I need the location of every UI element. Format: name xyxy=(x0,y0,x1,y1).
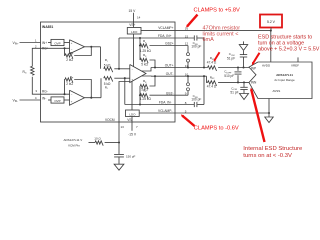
wire VCLAMP+ to AVDD xyxy=(175,30,271,32)
capacitor CDIFF 510pF xyxy=(235,68,242,83)
wire RG+ to A1 inverting input xyxy=(41,47,70,49)
svg-text:5.2 V: 5.2 V xyxy=(267,20,276,24)
svg-text:G: G xyxy=(25,73,27,75)
svg-text:12: 12 xyxy=(185,42,189,46)
pin VS- name xyxy=(127,118,132,122)
svg-text:LDO: LDO xyxy=(129,112,136,116)
RF2 filter value xyxy=(207,85,217,89)
annotation Internal ESD line2 xyxy=(243,153,292,159)
svg-text:OVP: OVP xyxy=(54,99,60,103)
pin RG- name xyxy=(42,89,48,93)
wire LDO1 to VCLAMP+ pin xyxy=(141,30,175,32)
junction Rx1 tap xyxy=(139,44,141,46)
svg-text:GS2-: GS2- xyxy=(166,91,174,95)
op-amp A2 xyxy=(70,90,85,105)
svg-text:OUT+: OUT+ xyxy=(165,64,174,68)
junction FDA -in node xyxy=(124,77,126,79)
junction CFB top on OUT+ xyxy=(203,66,205,68)
capacitor CFB top 100pF xyxy=(175,35,204,40)
wire A1 output xyxy=(85,46,101,48)
resistor RF1 internal 2k xyxy=(65,54,73,59)
ADC ADS127L11 U2 xyxy=(249,62,312,99)
junction AVDD node xyxy=(270,30,272,32)
junction CCM bottom xyxy=(243,81,245,83)
pin VCLAMP+ name xyxy=(158,26,173,30)
RF5k top label xyxy=(143,53,147,58)
Rx1 value xyxy=(140,49,152,53)
svg-text:ADS127L11 V: ADS127L11 V xyxy=(64,138,83,142)
CCM top label xyxy=(229,52,235,57)
pin IN- name xyxy=(42,96,46,100)
wire RG- to A2 inverting input xyxy=(41,93,70,95)
RF5k top value xyxy=(141,62,148,66)
node ADS127L11 VCM pin text xyxy=(64,138,83,148)
svg-text:2: 2 xyxy=(35,44,37,48)
Rx2 label xyxy=(143,88,147,93)
pin GS2- name xyxy=(166,91,174,95)
wire VIN+ to pin 1 xyxy=(20,42,41,44)
wire RG to RG- xyxy=(32,77,40,94)
resistor Rx2 1.25k xyxy=(140,94,148,99)
arrow to RF1 resistor xyxy=(214,52,220,62)
wire VS- stub xyxy=(131,122,133,131)
svg-text:1.25 kΩ: 1.25 kΩ xyxy=(140,97,152,101)
svg-text:4: 4 xyxy=(35,96,37,100)
svg-text:IN+: IN+ xyxy=(42,41,47,45)
pin 4 number xyxy=(35,96,37,100)
svg-text:VCLAMP+: VCLAMP+ xyxy=(158,26,173,30)
wire OUT+ row xyxy=(151,67,208,69)
junction AVSS node xyxy=(268,112,270,114)
svg-text:above + 5.2+0.3 V = 5.5V: above + 5.2+0.3 V = 5.5V xyxy=(258,46,320,52)
junction CDIFF bottom xyxy=(237,81,239,83)
wire FDA_IN+ row xyxy=(119,37,175,39)
junction CCM top xyxy=(242,66,244,68)
junction A1 feedback node xyxy=(63,47,65,49)
wire GS2+ jumper top xyxy=(187,46,189,53)
pin FDA_IN+ name xyxy=(158,34,172,38)
open circle GS2- b xyxy=(187,83,190,86)
Rx1 label xyxy=(143,39,147,44)
ADC pin AVDD name xyxy=(262,63,271,67)
svg-text:VCLAMP-: VCLAMP- xyxy=(158,109,172,113)
CCM bottom label xyxy=(231,86,237,91)
Rx2 value xyxy=(140,97,152,101)
resistor Rx1 1.25k xyxy=(140,44,148,49)
svg-text:VS-: VS- xyxy=(127,118,132,122)
resistor RF2 internal 2k xyxy=(65,78,73,83)
OVP block input - (bottom) xyxy=(51,97,64,103)
svg-text:5 kΩ: 5 kΩ xyxy=(104,63,111,67)
ADC pin INP name xyxy=(251,67,256,71)
wire A1 out to RI1 xyxy=(100,47,102,69)
svg-text:AVDD: AVDD xyxy=(262,63,271,67)
wire LDO1 down to FDA top xyxy=(133,34,135,67)
ADC pin AVSS name xyxy=(273,89,281,93)
pin 1 number xyxy=(35,39,37,43)
RF1 value xyxy=(66,58,73,62)
RF1 label xyxy=(70,51,74,56)
svg-text:51 pF: 51 pF xyxy=(230,90,238,94)
OVP block input + (top) xyxy=(51,39,64,45)
svg-text:2 kΩ: 2 kΩ xyxy=(66,82,73,86)
pin FDA_IN- name xyxy=(159,101,172,105)
junction GS2+ jumper on OUT+ xyxy=(187,66,189,68)
wire OUT- row xyxy=(151,75,207,77)
junction A1 output xyxy=(90,46,92,48)
op-amp A1 xyxy=(70,40,85,54)
wire RI1 to FDA +in xyxy=(114,68,130,70)
ground CCM bottom xyxy=(240,93,249,100)
wire RF5k to OUT- tap xyxy=(150,76,156,86)
svg-text:VS+: VS+ xyxy=(129,23,135,27)
CFB bottom value xyxy=(191,98,201,102)
wire IN- to OVP2 xyxy=(48,99,51,101)
wire stack node top xyxy=(139,38,141,60)
wire AVDD stub xyxy=(270,31,272,62)
svg-text:Internal ESD Structure: Internal ESD Structure xyxy=(243,146,303,152)
arrow to VCLAMP+ xyxy=(186,15,198,28)
RG label xyxy=(23,70,27,75)
svg-text:VOCM: VOCM xyxy=(105,118,115,122)
svg-text:-15 V: -15 V xyxy=(128,133,137,137)
node 15V supply label xyxy=(129,9,137,13)
pin VCLAMP- name xyxy=(158,109,172,113)
RF2 label xyxy=(70,75,74,80)
wire LDO2 up to FDA bottom xyxy=(131,81,133,110)
wire OVP to A1 xyxy=(64,42,70,44)
svg-text:LDO: LDO xyxy=(131,30,138,34)
RF1 filter value xyxy=(207,60,217,64)
RI2 value xyxy=(104,82,111,86)
wire GS2+ jumper bottom xyxy=(187,62,189,67)
capacitor CVCM 150pF xyxy=(114,143,124,162)
arrow to INN xyxy=(250,88,264,142)
wire Rx2 to GS2- pin xyxy=(150,94,189,96)
wire 5.2V to AVDD node xyxy=(270,27,272,30)
wire LDO2 down to VS- pin xyxy=(131,117,133,123)
wire GS2- jumper top xyxy=(187,76,189,83)
svg-text:FDA_IN+: FDA_IN+ xyxy=(158,34,172,38)
junction FDA +in node xyxy=(118,68,120,70)
fully-differential amplifier FDA xyxy=(130,65,146,83)
svg-text:51 pF: 51 pF xyxy=(227,56,235,60)
junction CDIFF top xyxy=(237,66,239,68)
ADC title xyxy=(276,73,293,77)
svg-text:5 kΩ: 5 kΩ xyxy=(141,62,148,66)
junction Rx2 tap xyxy=(139,94,141,96)
wire Rx1 to GS2+ pin xyxy=(150,45,189,47)
wire INP row xyxy=(218,67,249,69)
pin 8 number xyxy=(185,101,187,105)
pin IN+ name xyxy=(42,41,47,45)
wire A2 feedback loop xyxy=(65,80,92,98)
wire RF5k to OUT+ tap xyxy=(150,60,156,68)
resistor RF2 47.4 xyxy=(208,81,217,86)
annotation CLAMPS to +5.8V xyxy=(194,7,241,13)
resistor RI1 5k xyxy=(104,67,113,72)
FDA output - stub xyxy=(141,75,151,77)
pin 7 number xyxy=(136,125,138,129)
junction GS2- jumper on OUT- xyxy=(187,75,189,77)
arrow to INP xyxy=(252,53,260,65)
annotation ESD structure line1 xyxy=(258,34,312,40)
svg-text:1: 1 xyxy=(35,39,37,43)
wire stack node bottom xyxy=(139,86,141,105)
svg-text:13: 13 xyxy=(121,125,125,129)
wire OVP2 to A2 xyxy=(64,99,70,101)
LDO2 block xyxy=(126,110,140,117)
RI1 label xyxy=(105,58,108,63)
junction VCM node xyxy=(118,141,120,143)
RF5k bottom label xyxy=(143,79,147,84)
ground CCM top xyxy=(239,41,248,50)
ADC pin INN name xyxy=(251,80,257,84)
CFB top value xyxy=(191,45,201,49)
svg-text:RG-: RG- xyxy=(42,89,48,93)
wire VOCM to VCM node xyxy=(118,122,120,143)
svg-text:6mA: 6mA xyxy=(203,37,215,43)
wire A2 out to RI2 xyxy=(100,78,102,98)
RF2 value xyxy=(66,82,73,86)
CFB top label xyxy=(193,41,199,46)
ground VCM xyxy=(114,161,124,170)
wire FDA_IN- node vertical xyxy=(124,78,126,104)
pin 12 number xyxy=(185,42,189,46)
CCM top value xyxy=(227,56,235,60)
pin 5 number xyxy=(185,110,187,114)
junction FDA_IN+ stack xyxy=(139,37,141,39)
ground AVSS xyxy=(265,113,274,123)
svg-text:AVSS: AVSS xyxy=(273,89,281,93)
pin VS+ name xyxy=(129,23,135,27)
RF2 filter label xyxy=(210,75,215,80)
wire GS2- jumper bottom xyxy=(187,91,189,95)
RI1 value xyxy=(104,63,111,67)
svg-text:47.4 Ω: 47.4 Ω xyxy=(207,85,217,89)
resistor RF1 47.4 xyxy=(208,66,217,71)
open circle GS2+ b xyxy=(187,59,190,62)
arrow to VCLAMP- xyxy=(181,114,195,126)
wire VCM from text xyxy=(89,142,96,144)
wire VCLAMP- to AVSS xyxy=(175,112,269,114)
wire RI2 to FDA -in xyxy=(114,77,130,79)
node VIN- label xyxy=(13,98,19,103)
RI2 label xyxy=(105,85,108,90)
wire RVCM to node xyxy=(105,142,119,144)
RF5k bottom value xyxy=(141,88,148,92)
svg-text:INN: INN xyxy=(251,80,257,84)
junction CFB bottom on OUT- xyxy=(203,75,205,77)
svg-text:INA851: INA851 xyxy=(42,25,54,29)
CFB bottom label xyxy=(193,94,199,99)
wire OUT- step down xyxy=(207,76,208,82)
svg-text:OUT-: OUT- xyxy=(166,72,174,76)
svg-text:ADS127L11: ADS127L11 xyxy=(276,73,293,77)
CCM bottom value xyxy=(230,90,238,94)
junction A2 output xyxy=(90,97,92,99)
wire 15V to pin 14 xyxy=(133,13,135,22)
annotation Internal ESD line1 xyxy=(243,146,303,152)
wire VIN- to pin 4 xyxy=(20,99,41,101)
capacitor CFB bottom 100pF xyxy=(175,102,204,107)
wire A2 output xyxy=(85,97,102,99)
pin VOCM name xyxy=(105,118,115,122)
resistor RI2 5k xyxy=(104,77,113,82)
resistor RG external xyxy=(31,66,34,75)
svg-text:CLAMPS to +5.8V: CLAMPS to +5.8V xyxy=(194,7,241,13)
wire A1 feedback loop xyxy=(65,47,92,56)
pin 15 number xyxy=(185,34,189,38)
resistor RVCM 10 ohm xyxy=(95,141,103,146)
CDIFF value xyxy=(224,74,234,78)
resistor RF5k bottom xyxy=(140,84,148,89)
svg-text:14: 14 xyxy=(137,15,141,19)
wire VOCM into FDA xyxy=(119,82,130,123)
junction OUT- feedback tap xyxy=(154,75,156,77)
wire CFB top to OUT+ xyxy=(203,38,205,68)
open circle GS2- a xyxy=(187,88,190,91)
svg-text:F2: F2 xyxy=(212,78,215,80)
wire LDO2 to VCLAMP- pin xyxy=(139,112,175,114)
svg-text:10 Ω: 10 Ω xyxy=(94,136,101,140)
wire RG+ out to RG xyxy=(32,48,40,66)
svg-text:CLAMPS to -0.6V: CLAMPS to -0.6V xyxy=(194,126,239,132)
FDA output + stub xyxy=(141,68,151,72)
pin 9 number xyxy=(185,91,187,95)
svg-text:2 kΩ: 2 kΩ xyxy=(66,58,73,62)
svg-text:INP: INP xyxy=(251,67,256,71)
svg-text:510 pF: 510 pF xyxy=(224,74,234,78)
node VIN+ label xyxy=(13,41,20,46)
LDO1 block xyxy=(127,28,141,35)
svg-text:7: 7 xyxy=(136,125,138,129)
wire FDA_IN- row xyxy=(125,104,175,106)
pin 16 number xyxy=(185,26,189,30)
junction A2 feedback node xyxy=(63,93,65,95)
pin OUT- name xyxy=(166,72,174,76)
junction FDA_IN- stack xyxy=(139,103,141,105)
svg-text:100 pF: 100 pF xyxy=(191,98,201,102)
wire AVSS stub xyxy=(268,99,270,114)
ADC subtitle xyxy=(274,78,295,82)
wire CFB bottom to OUT- xyxy=(203,76,205,104)
annotation 47Ohm resistor line2 xyxy=(203,31,239,37)
svg-text:OVP: OVP xyxy=(54,42,60,46)
capacitor CCM top 51pF xyxy=(240,51,247,68)
svg-text:VIN-: VIN- xyxy=(13,98,19,103)
svg-text:FDA_IN-: FDA_IN- xyxy=(159,101,172,105)
INA851 title xyxy=(42,25,54,29)
pin 2 number xyxy=(35,44,37,48)
capacitor CCM bottom 51pF xyxy=(240,82,247,93)
pin 10 number xyxy=(185,73,189,77)
pin OUT+ name xyxy=(165,64,174,68)
svg-text:47.4 Ω: 47.4 Ω xyxy=(207,60,217,64)
wire VS+ to LDO1 xyxy=(133,22,135,28)
annotation 47Ohm resistor line3 xyxy=(203,37,215,43)
svg-text:VCM Pin: VCM Pin xyxy=(68,144,80,148)
node -15V supply label xyxy=(128,133,137,137)
svg-text:IN-: IN- xyxy=(42,96,46,100)
pin GS2+ name xyxy=(165,42,174,46)
CDIFF label xyxy=(224,70,232,75)
svg-text:2x Input Range: 2x Input Range xyxy=(274,78,295,82)
svg-text:VIN+: VIN+ xyxy=(13,41,20,46)
svg-text:GS2+: GS2+ xyxy=(165,42,174,46)
junction OUT+ feedback tap xyxy=(154,66,156,68)
svg-text:3: 3 xyxy=(35,89,37,93)
svg-text:15 V: 15 V xyxy=(129,9,137,13)
CVCM value xyxy=(126,154,136,158)
INA851 amplifier outline U1 xyxy=(41,22,176,122)
node 5.2V supply box xyxy=(260,15,282,28)
svg-text:100 pF: 100 pF xyxy=(191,45,201,49)
resistor RF5k top xyxy=(140,58,148,63)
pin 3 number xyxy=(35,89,37,93)
annotation 47Ohm resistor line1 xyxy=(203,26,241,32)
pin RG+ name xyxy=(42,47,49,51)
svg-text:150 pF: 150 pF xyxy=(126,154,136,158)
annotation ESD structure line2 xyxy=(258,40,304,46)
ADC pin VREF name xyxy=(291,63,299,67)
annotation CLAMPS to -0.6V xyxy=(194,126,239,132)
wire INN row xyxy=(218,81,249,83)
pin 11 number xyxy=(185,64,188,68)
wire IN+ to OVP xyxy=(48,42,51,44)
wire VREF stub xyxy=(297,57,299,62)
RF1 filter label xyxy=(210,56,215,61)
pin 14 number xyxy=(137,15,141,19)
RVCM value xyxy=(94,136,101,140)
pin 13 number xyxy=(121,125,125,129)
svg-text:1.25 kΩ: 1.25 kΩ xyxy=(140,49,152,53)
svg-text:turns on at < -0.3V: turns on at < -0.3V xyxy=(243,153,292,159)
wire FDA_IN+ node vertical xyxy=(118,38,120,69)
open circle GS2+ a xyxy=(187,53,190,56)
annotation ESD structure line3 xyxy=(258,46,320,52)
svg-text:VREF: VREF xyxy=(291,63,299,67)
